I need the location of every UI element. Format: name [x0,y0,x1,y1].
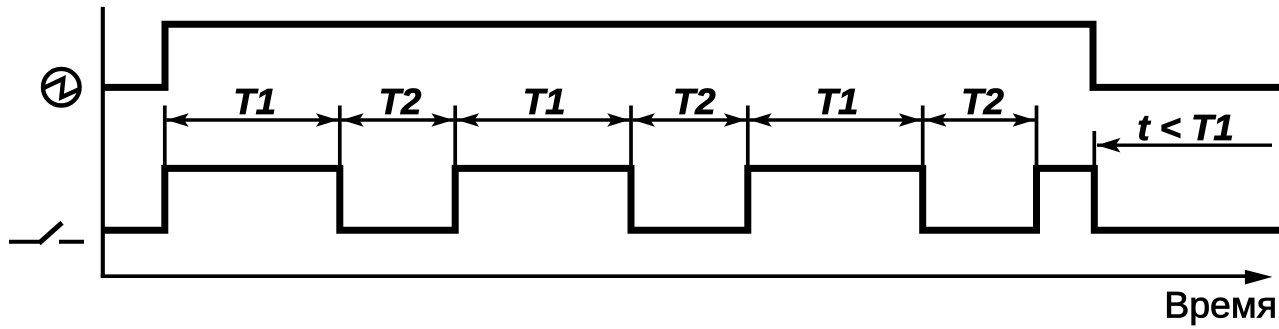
label T2 (1) [379,81,422,122]
label T1 (2) [523,81,566,122]
dimension tick at second rise [453,106,457,170]
dimension arrows T2 span 1 [342,113,454,127]
svg-text:T2: T2 [961,81,1004,122]
vertical axis [101,7,105,276]
dimension tick at second fall [629,106,633,170]
top waveform: supply voltage [102,24,1279,87]
dimension arrow t < T1 (left pointing) [1097,138,1272,153]
dimension tick at first fall [338,106,342,170]
dimension tick at third rise [746,106,750,170]
switch (contact) symbol S1 [9,223,84,244]
dimension tick at fourth rise [1035,106,1039,170]
dimension arrows T2 span 3 [925,113,1035,127]
svg-text:T1: T1 [233,81,276,122]
dimension tick at third fall [921,106,925,170]
svg-text:T2: T2 [379,81,422,122]
svg-text:T2: T2 [673,81,716,122]
label T2 (3) [961,81,1004,122]
label T1 (1) [233,81,276,122]
svg-text:t < T1: t < T1 [1137,107,1233,148]
time axis (horizontal) [101,270,1273,285]
dimension arrows T2 span 2 [633,113,746,127]
dimension tick at last fall (t<T1) [1092,131,1096,169]
axis label: Время [1164,284,1277,326]
dimension arrows T1 span 2 [457,113,629,127]
dimension tick at first rise [163,106,167,170]
label t < T1 [1137,107,1233,148]
svg-text:T1: T1 [816,81,859,122]
svg-text:T1: T1 [523,81,566,122]
bottom waveform: output contact pulses [102,168,1279,230]
label T1 (3) [816,81,859,122]
AC supply source symbol G1 (circle with step-wave) [42,69,80,106]
dimension arrows T1 span 3 [750,113,921,127]
svg-text:Время: Время [1164,284,1277,326]
dimension arrows T1 span 1 [167,113,338,127]
label T2 (2) [673,81,716,122]
